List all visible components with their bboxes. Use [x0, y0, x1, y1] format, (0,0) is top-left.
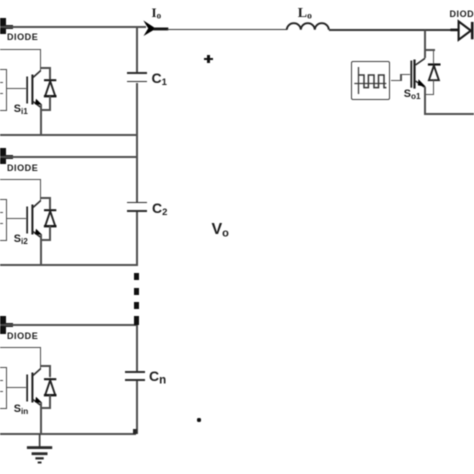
wire (stub from D1 bar) [4, 25, 13, 29]
label C2 [152, 200, 167, 218]
label Io [152, 5, 162, 21]
inductor Lo [286, 21, 330, 33]
gate driver box (stage 1, cut at left edge) [0, 69, 7, 110]
transistor Si2 (IGBT symbol) [24, 198, 44, 240]
wire (stage 2 inner top line) [0, 179, 41, 180]
waveform tick (stage 1 box) [0, 82, 3, 83]
pwm waveform [351, 62, 390, 100]
dotted bus continuation (dash 4) [134, 316, 139, 325]
wire (So1 diode-branch vertical lower) [433, 80, 435, 95]
wire (bus segment C2 to stage-2 bottom) [136, 212, 138, 266]
transistor So1 (IGBT symbol) [408, 53, 428, 95]
waveform tick (stage 2 box) [0, 212, 3, 213]
ground (earth symbol) [25, 434, 55, 466]
label So1 [404, 88, 421, 101]
wire (stage 1 inner top line) [0, 49, 41, 50]
transistor Si1 (IGBT symbol) [24, 68, 44, 110]
wire (bus segment Cn to bottom rail) [136, 381, 138, 434]
junction (bus / bottom rail corner) [133, 429, 137, 434]
diode Dn (input diode bar at left edge) [0, 316, 6, 334]
wire (stage 1 diode-branch upper vertical) [49, 67, 51, 79]
wire (stage 1 gate wire) [5, 88, 27, 90]
label DIODE (stage 1) [7, 32, 38, 42]
diode DF2 (freewheel diode of Si2) [42, 207, 60, 229]
wire (rail from Lo to output diode) [329, 29, 451, 31]
label Lo [298, 6, 312, 22]
capacitor Cn [125, 371, 146, 373]
wire (stage 2 collector vertical) [40, 179, 42, 201]
wire (stage 2 top rail) [0, 156, 138, 158]
node + (output positive polarity) [204, 58, 213, 61]
capacitor C2 [127, 202, 148, 204]
wire (stage n diode-branch top) [40, 365, 51, 367]
wire (stage 1 collector vertical) [40, 49, 42, 71]
label Sin [14, 403, 28, 416]
wire (So1 diode loop bottom) [424, 94, 434, 96]
diode DFn (freewheel diode of Sin) [42, 376, 60, 398]
diode D1 (input diode bar at left edge) [0, 18, 6, 34]
label Cn [149, 368, 166, 387]
wire (So1 tap vertical from rail) [424, 30, 426, 58]
wire (stage n diode loop bottom) [40, 407, 51, 409]
wire (stage n gate wire) [5, 387, 27, 389]
wire (stage n inner top line) [0, 347, 41, 348]
wire (pwm to gate horizontal) [391, 80, 402, 82]
wire (stage n collector vertical) [40, 347, 42, 369]
wire (stage 2 diode-branch upper vertical) [49, 197, 51, 209]
wire (gate jog horizontal to So1) [400, 74, 410, 76]
waveform tick (stage n box) [0, 391, 3, 392]
label DIODE (output) [450, 9, 474, 19]
label DIODE (stage 2) [7, 163, 38, 173]
diode DF1 (freewheel diode of Si1) [42, 77, 60, 99]
wire (stage 1 diode-branch lower vertical) [49, 96, 51, 110]
transistor Sin (IGBT symbol) [24, 366, 44, 408]
wire (stage 2 bottom rail) [0, 264, 138, 266]
wire (rail from Io arrow to Lo) [167, 29, 287, 31]
waveform tick (stage 2 box) [0, 223, 3, 224]
pwm generator box [351, 61, 391, 100]
wire (stub from Dn bar) [4, 323, 13, 327]
stray dot (figure artifact) [197, 418, 201, 422]
label DIODE (stage n) [7, 331, 38, 341]
diode Do (output diode at right edge) [448, 19, 474, 42]
wire (gate jog vertical) [400, 74, 402, 82]
gate driver box (stage 2, cut at left edge) [0, 199, 7, 240]
wire (stage 2 diode-branch top) [40, 197, 51, 199]
wire (stage 1 bottom rail) [0, 134, 138, 136]
wire (bus segment stage-n top to Cn) [136, 325, 138, 371]
wire (So1 collector jog horizontal) [424, 49, 435, 51]
wire (stage n top rail) [0, 324, 138, 326]
diode D2 (input diode bar at left edge) [0, 148, 6, 164]
wire (stage n emitter vertical) [40, 403, 42, 435]
wire (stage 1 diode-branch top) [40, 67, 51, 69]
label Vo [212, 221, 229, 240]
dotted bus continuation (dash 3) [134, 302, 139, 309]
capacitor C1 [127, 72, 148, 74]
wire (stage 2 emitter vertical) [40, 235, 42, 266]
label Si1 [14, 103, 28, 116]
wire (stage n diode-branch upper vertical) [49, 365, 51, 377]
wire (stage 2 gate wire) [5, 218, 27, 220]
arrow Io (current direction) [141, 19, 171, 33]
gate driver box (stage n, cut at left edge) [0, 367, 7, 408]
wire (stage n bottom rail / ground rail) [0, 433, 136, 435]
dotted bus continuation (dash 2) [134, 288, 139, 295]
label C1 [152, 70, 167, 88]
diode DFo (freewheel diode of So1) [426, 61, 444, 83]
wire (stage n diode-branch lower vertical) [49, 395, 51, 408]
waveform tick (stage 1 box) [0, 93, 3, 94]
wire (stub from D2 bar) [4, 155, 13, 159]
wire (stage 2 diode-branch lower vertical) [49, 226, 51, 240]
wire (stage 2 diode loop bottom) [40, 239, 51, 241]
wire (stage 1 diode loop bottom) [40, 109, 51, 111]
label Si2 [14, 233, 28, 246]
wire (So1 emitter output to right edge) [424, 113, 474, 115]
dotted bus continuation (dash 1) [134, 273, 139, 280]
wire (stage 1 emitter vertical) [40, 105, 42, 136]
wire (So1 emitter vertical) [424, 87, 426, 115]
wire (So1 diode-branch vertical upper) [433, 49, 435, 63]
wire (stage 1 top rail to bus and Io arrow) [0, 26, 146, 28]
wire (bus segment C1 to C2) [136, 83, 138, 203]
wire (bus segment top rail to C1) [136, 27, 138, 72]
waveform tick (stage n box) [0, 380, 3, 381]
